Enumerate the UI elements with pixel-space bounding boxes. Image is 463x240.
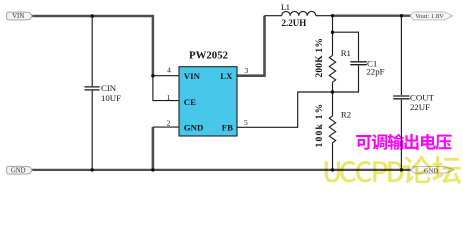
svg-text:CIN: CIN (101, 83, 117, 93)
svg-text:1: 1 (167, 93, 171, 102)
svg-text:FB: FB (222, 123, 233, 133)
svg-text:L1: L1 (281, 3, 290, 12)
svg-text:R1: R1 (341, 48, 351, 58)
svg-text:2.2UH: 2.2UH (282, 18, 307, 28)
svg-text:100k 1%: 100k 1% (315, 103, 325, 148)
svg-text:5: 5 (244, 118, 248, 127)
svg-text:VIN: VIN (184, 71, 201, 81)
svg-text:PW2052: PW2052 (189, 50, 228, 62)
svg-text:Vout: 1.8V: Vout: 1.8V (415, 13, 444, 20)
svg-text:LX: LX (220, 71, 233, 81)
svg-text:R2: R2 (341, 110, 351, 120)
svg-text:4: 4 (167, 66, 171, 75)
svg-text:COUT: COUT (410, 92, 435, 102)
svg-text:2: 2 (167, 119, 171, 128)
svg-text:VIN: VIN (12, 13, 24, 20)
svg-text:GND: GND (184, 123, 204, 133)
svg-text:3: 3 (245, 66, 249, 75)
svg-text:22UF: 22UF (410, 102, 430, 112)
svg-text:200K 1%: 200K 1% (315, 38, 325, 78)
svg-text:22pF: 22pF (366, 67, 384, 77)
svg-text:10UF: 10UF (101, 93, 121, 103)
svg-text:GND: GND (11, 168, 26, 175)
svg-text:CE: CE (184, 97, 196, 107)
